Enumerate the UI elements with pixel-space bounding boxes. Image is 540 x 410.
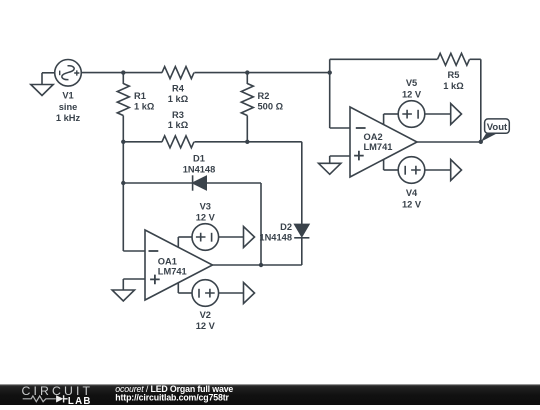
svg-text:V3: V3 <box>200 201 211 211</box>
diode D1 cathode bar <box>192 175 194 190</box>
source V2 plus sign <box>205 289 215 298</box>
svg-text:OA1: OA1 <box>158 256 177 266</box>
svg-text:Vout: Vout <box>487 122 508 133</box>
node D junction dot <box>121 140 125 144</box>
node C junction dot <box>328 70 332 74</box>
op-amp OA2 plus sign <box>354 151 364 161</box>
node B junction dot <box>245 70 249 74</box>
wire ground stem <box>41 73 43 85</box>
ground (V1) <box>31 85 53 96</box>
svg-text:R3: R3 <box>172 110 184 120</box>
svg-text:12 V: 12 V <box>402 200 422 210</box>
wire down to D2 anode <box>301 142 303 225</box>
wire R1 top lead <box>122 73 124 84</box>
op-amp OA1 plus sign <box>150 275 160 285</box>
wire V5 to arrow <box>425 113 451 115</box>
source V1 sine glyph <box>62 66 74 80</box>
node Vout junction dot <box>479 140 483 144</box>
wire V1 left to ground <box>42 72 55 74</box>
source V3 plus sign <box>196 233 206 242</box>
wire stem to V2 <box>178 292 192 294</box>
op-amp OA2 minus sign <box>356 127 366 129</box>
wire node A to R4 <box>123 72 162 74</box>
svg-text:V2: V2 <box>200 310 211 320</box>
logo resistor zigzag <box>23 396 56 402</box>
net flag Vout tail <box>481 134 497 142</box>
source V3 minus bar <box>211 233 213 242</box>
wire node B to node C <box>247 72 329 74</box>
source V1 plus sign <box>74 70 79 75</box>
wire node D to R3 <box>123 141 162 143</box>
svg-text:R1: R1 <box>134 91 146 101</box>
wire R2 bottom lead <box>246 116 248 142</box>
wire D1 cathode to node F <box>123 182 192 184</box>
wire stem to V4 <box>384 169 399 171</box>
svg-text:R4: R4 <box>172 84 185 94</box>
resistor R2 <box>241 84 253 116</box>
svg-text:12 V: 12 V <box>196 321 216 331</box>
op-amp OA2 <box>350 107 417 177</box>
svg-text:D2: D2 <box>280 222 292 232</box>
arrow indicator V5 <box>451 104 462 125</box>
wire V4 supply stem <box>383 159 385 170</box>
source V1 minus bar <box>59 71 61 76</box>
svg-text:500 Ω: 500 Ω <box>258 102 284 112</box>
diode D1 arrow <box>193 176 206 189</box>
wire OA1 output row <box>213 264 302 266</box>
source V3 circle <box>192 224 219 251</box>
wire stem to V5 <box>384 113 399 115</box>
svg-text:12 V: 12 V <box>402 90 422 100</box>
svg-text:V4: V4 <box>406 188 418 198</box>
svg-text:1N4148: 1N4148 <box>259 232 292 242</box>
svg-text:LAB: LAB <box>68 396 92 405</box>
logo diode <box>56 395 63 402</box>
op-amp OA1 minus sign <box>149 250 159 252</box>
svg-text:1 kHz: 1 kHz <box>56 113 81 123</box>
source V2 circle <box>192 280 219 307</box>
arrow indicator V2 <box>244 283 255 304</box>
svg-text:1 kΩ: 1 kΩ <box>168 120 189 130</box>
wire R5 down to Vout <box>480 59 482 142</box>
source V2 minus bar <box>198 289 200 298</box>
svg-text:1 kΩ: 1 kΩ <box>443 81 464 91</box>
wire V3 to arrow <box>219 236 244 238</box>
wire OA1 inverting input <box>123 250 145 252</box>
source V5 minus bar <box>417 110 419 119</box>
svg-text:R5: R5 <box>448 70 460 80</box>
source V4 circle <box>398 157 425 184</box>
node F junction dot <box>121 181 125 185</box>
svg-text:R2: R2 <box>258 91 270 101</box>
svg-text:1 kΩ: 1 kΩ <box>168 94 189 104</box>
wire OA2 ground stem <box>329 156 331 163</box>
wire R3 to node E <box>194 141 247 143</box>
source V4 minus bar <box>404 166 406 175</box>
op-amp OA1 <box>145 230 213 300</box>
wire OA2 plus to left <box>330 155 350 157</box>
wire stem to V3 <box>178 236 192 238</box>
wire V5 supply stem <box>383 114 385 125</box>
svg-text:LM741: LM741 <box>158 267 187 277</box>
svg-text:12 V: 12 V <box>196 213 216 223</box>
arrow indicator V4 <box>451 160 462 181</box>
node A junction dot <box>121 70 125 74</box>
wire feedback right <box>470 58 481 60</box>
wire V3 supply stem <box>177 237 179 247</box>
wire V2 to arrow <box>219 292 244 294</box>
wire R2 top lead <box>246 73 248 84</box>
source V1 circle <box>55 60 82 87</box>
ground (OA2 non-inverting) <box>319 163 341 174</box>
svg-text:1 kΩ: 1 kΩ <box>134 102 155 112</box>
wire feedback left <box>330 58 438 60</box>
wire node D down to D1 row <box>122 142 124 183</box>
resistor R1 <box>117 84 129 116</box>
svg-text:OA2: OA2 <box>364 132 383 142</box>
wire R1 bottom lead <box>122 116 124 142</box>
svg-text:LM741: LM741 <box>364 142 393 152</box>
footer bar <box>0 384 540 405</box>
ground (OA1 non-inverting) <box>112 290 134 301</box>
wire OA2 output <box>417 141 481 143</box>
svg-text:V1: V1 <box>62 91 73 101</box>
wire R4 to node B <box>194 72 247 74</box>
svg-text:V5: V5 <box>406 78 417 88</box>
resistor R5 <box>438 53 470 65</box>
wire node F down to OA1 minus <box>122 183 124 251</box>
svg-text:1N4148: 1N4148 <box>183 164 216 174</box>
wire V2 supply stem <box>177 283 179 293</box>
svg-text:D1: D1 <box>193 154 205 164</box>
source V4 plus sign <box>411 166 421 175</box>
node G junction dot <box>259 263 263 267</box>
wire node G down to output row <box>260 183 262 265</box>
svg-text:http://circuitlab.com/cg758tr: http://circuitlab.com/cg758tr <box>115 393 229 403</box>
wire V4 to arrow <box>425 169 451 171</box>
node E junction dot <box>245 140 249 144</box>
wire D1 anode right <box>206 182 261 184</box>
net flag Vout box <box>485 119 510 133</box>
wire OA2 inverting input <box>330 127 350 129</box>
source V5 plus sign <box>402 110 412 119</box>
diode D2 cathode bar <box>294 237 309 239</box>
wire OA1 ground stem <box>122 279 124 290</box>
wire node E to D2 column <box>247 141 301 143</box>
wire OA1 plus to left <box>123 278 145 280</box>
logo diode bar and wire <box>64 395 68 402</box>
wire D2 cathode down <box>301 238 303 265</box>
arrow indicator V3 <box>244 227 255 248</box>
resistor R3 <box>162 136 194 148</box>
svg-text:sine: sine <box>59 102 78 112</box>
source V5 circle <box>398 101 425 128</box>
wire V1 to node A <box>81 72 123 74</box>
resistor R4 <box>162 67 194 79</box>
wire node C vertical <box>329 59 331 128</box>
diode D2 arrow <box>295 224 309 236</box>
